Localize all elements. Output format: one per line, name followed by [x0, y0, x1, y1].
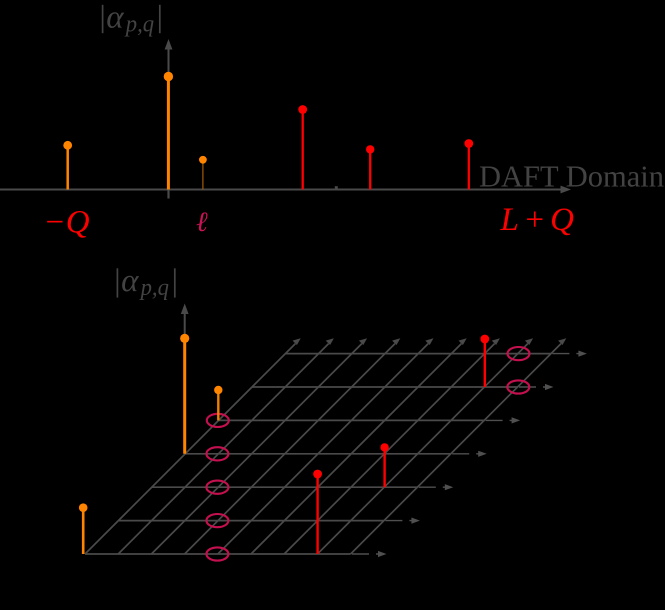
row dashed arrow extensions [352, 354, 580, 554]
row extension arrowheads [378, 351, 587, 558]
svg-text:p,q: p,q [139, 275, 169, 301]
row 1 extension [385, 520, 413, 522]
diagonal col 3 [185, 344, 395, 554]
grid row 1 [118, 520, 384, 522]
diagonal arrowheads [293, 338, 567, 345]
bottom stem orange B1 (front-left corner) [79, 503, 88, 554]
stem R1 red [298, 105, 307, 189]
diagonal col 2 [151, 344, 361, 554]
bottom stem orange B2 (tall, at axis) [180, 334, 189, 454]
diagonal col 1 [118, 344, 328, 554]
y-axis label |alpha_pq| (bottom) [116, 268, 118, 297]
lattice grid rows (horizontal lines) [85, 354, 551, 554]
row 6 extension [552, 353, 580, 355]
svg-text:DAFT Domain: DAFT Domain [479, 160, 664, 194]
x-axis arrowhead [561, 186, 572, 194]
svg-text:−Q: −Q [44, 205, 90, 241]
row 5 extension [519, 386, 547, 388]
ellipse row5 col8 [507, 380, 529, 393]
grid row 3 [185, 453, 451, 455]
ellipse row2 col2 [206, 481, 228, 494]
diagonal col 7 [317, 344, 527, 554]
circled lattice points (crimson ellipses) [206, 347, 529, 561]
stem R3 red [464, 139, 473, 189]
y-axis [168, 47, 170, 192]
diagonal col 0 [85, 344, 295, 554]
diagonal col 4 [218, 344, 428, 554]
y-axis label |alpha_pq| (top) [102, 5, 104, 33]
row 4 extension [486, 419, 514, 421]
svg-text:α: α [106, 0, 124, 35]
bottom y-axis arrowhead [181, 304, 189, 315]
ellipse row4 col0 [207, 414, 229, 427]
ellipse row6 col7 [508, 347, 530, 360]
ellipse row1 col3 [206, 514, 228, 527]
row 2 extension [419, 486, 447, 488]
svg-text:ℓ: ℓ [196, 207, 208, 238]
svg-text:p,q: p,q [124, 11, 154, 37]
diagonal col 8 [351, 344, 561, 554]
bottom stem red B4 (row0 col7) [313, 470, 322, 554]
bottom stem red B6 (row5 col7) [480, 335, 489, 387]
grid row 5 [252, 386, 518, 388]
lattice grid diagonals (columns) with arrowheads [85, 344, 561, 554]
svg-text:L+Q: L+Q [500, 202, 579, 238]
grid row 0 (front) [85, 553, 351, 555]
stem R2 red [366, 145, 374, 189]
y-axis arrowhead [165, 39, 173, 50]
row 0 extension [352, 553, 380, 555]
bottom stem red B5 (row2 col7) [380, 443, 388, 487]
x-axis (DAFT domain axis) [0, 189, 562, 191]
svg-text:α: α [121, 263, 139, 299]
grid row 6 (back) [285, 353, 551, 355]
grid row 4 [219, 419, 485, 421]
diagonal col 6 [284, 344, 494, 554]
ellipse row3 col1 [206, 447, 228, 460]
diagonal col 5 [251, 344, 461, 554]
stem O1 orange at -Q [63, 141, 72, 190]
grid row 2 [152, 486, 418, 488]
stem O3 small dark orange at l [199, 156, 207, 190]
row 3 extension [452, 453, 480, 455]
stem O2 orange at 0 (tall) [164, 72, 173, 190]
bottom stem orange B3 (in circled point row4) [214, 386, 222, 421]
small tick on axis [335, 186, 338, 189]
ellipse row0 col4 [206, 547, 228, 560]
bottom y-axis [184, 311, 186, 452]
origin tick below axis [167, 190, 169, 199]
